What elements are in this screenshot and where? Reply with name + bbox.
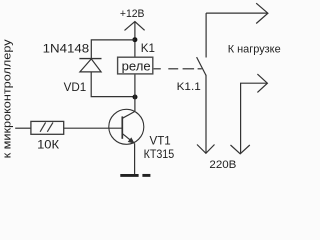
contact K1.1 upper terminal [205, 13, 207, 57]
svg-text:K1: K1 [141, 41, 156, 55]
+12V supply arrow [125, 22, 145, 31]
220V arrow (left) [197, 145, 215, 154]
contact K1.1 blade [197, 57, 206, 75]
diode VD1 triangle [80, 59, 101, 72]
svg-text:220В: 220В [209, 159, 236, 171]
ground [120, 174, 138, 177]
wire: to load (second) with arrow [241, 83, 268, 154]
relay K1 coil box [118, 57, 153, 74]
svg-text:VT1: VT1 [150, 133, 172, 147]
transistor VT1 collector stroke [123, 111, 135, 118]
transistor VT1 emitter stroke with arrow [123, 134, 135, 144]
node B (bottom junction) [133, 95, 138, 100]
svg-text:реле: реле [122, 58, 151, 73]
wire: top node to diode cathode [91, 40, 135, 59]
svg-text:K1.1: K1.1 [177, 81, 201, 93]
node A (top junction) [132, 37, 137, 42]
transistor VT1 circle [109, 109, 144, 144]
svg-text:10К: 10К [37, 138, 59, 152]
diode VD1 cathode bar [79, 58, 101, 60]
svg-text:КТ315: КТ315 [144, 147, 175, 161]
svg-text:к микроконтроллеру: к микроконтроллеру [1, 39, 13, 159]
svg-text:1N4148: 1N4148 [43, 42, 90, 56]
wire: resistor R1 to transistor base [64, 127, 123, 129]
wire: relay bottom to collector [134, 74, 136, 112]
transistor VT1 base bar [121, 116, 123, 138]
resistor power-rating slashes [40, 122, 46, 131]
wire: emitter down to ground [134, 143, 136, 174]
wire: diode anode to bottom node [91, 72, 135, 97]
wire: to load (top) with arrow [206, 12, 268, 14]
svg-text:+12В: +12В [120, 8, 145, 20]
svg-text:VD1: VD1 [64, 80, 87, 94]
wire: +12V down to relay [134, 22, 136, 58]
contact K1.1 lower terminal [205, 75, 207, 153]
resistor R1 body [31, 121, 64, 134]
220V arrow (right) [231, 145, 250, 154]
wire: microcontroller to resistor R1 [15, 127, 31, 129]
svg-text:К нагрузке: К нагрузке [228, 44, 281, 56]
mechanical link (dashed) from relay to contact K1.1 [154, 68, 161, 70]
